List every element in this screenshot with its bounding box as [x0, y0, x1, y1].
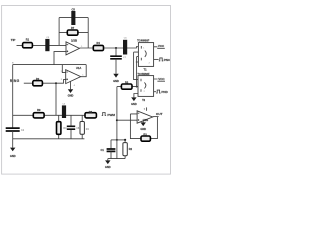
- wire feedback riser: [58, 18, 60, 46]
- svg-text:RING: RING: [10, 79, 20, 83]
- wire feedback right edge: [87, 18, 89, 48]
- node PND: [154, 91, 156, 93]
- resistor R8: [85, 113, 96, 118]
- wire RING input: [24, 80, 66, 84]
- svg-text:U1A: U1A: [76, 66, 81, 70]
- node VCC: [154, 47, 165, 49]
- svg-text:PND: PND: [161, 90, 168, 94]
- wire IC1 pin2 riser: [134, 52, 138, 80]
- wire op-amp3 feedback: [130, 114, 157, 139]
- svg-text:R3: R3: [143, 133, 147, 137]
- resistor R3: [141, 136, 150, 141]
- resistor R11: [81, 115, 83, 139]
- resistor R7: [67, 30, 78, 35]
- op-amp U1B2: [146, 107, 148, 110]
- resistor R5: [117, 86, 138, 88]
- svg-text:1/2B: 1/2B: [71, 38, 77, 42]
- node PNC: [154, 58, 159, 60]
- svg-text:R2: R2: [36, 77, 40, 81]
- svg-text:C1: C1: [101, 148, 105, 152]
- capacitor C7: [115, 48, 117, 56]
- wire op-amp1 output: [79, 47, 138, 48]
- svg-text:GND: GND: [68, 93, 74, 97]
- wire op-amp3 +input: [117, 119, 137, 121]
- node PWM: [102, 113, 106, 116]
- wire op-amp2 gnd stub: [70, 82, 72, 90]
- op-amp U1A: [13, 64, 87, 66]
- wire C1 R2 top node: [111, 139, 125, 141]
- capacitor C3: [45, 39, 49, 51]
- ground: [113, 74, 118, 78]
- svg-text:R7: R7: [71, 26, 75, 30]
- node junction: [55, 82, 57, 84]
- resistor R1: [23, 43, 33, 48]
- svg-text:R1: R1: [26, 37, 30, 41]
- wire lower-left upper rail: [13, 114, 97, 116]
- wire IC1 pin3 riser: [136, 57, 138, 87]
- svg-text:GND: GND: [105, 165, 111, 169]
- wire op-amp3 output: [153, 116, 159, 118]
- ground: [105, 160, 110, 164]
- node VCC: [154, 79, 165, 81]
- resistor R2: [33, 81, 43, 86]
- capacitor C2: [6, 128, 20, 131]
- capacitor C8: [70, 115, 72, 139]
- node junction: [116, 119, 118, 121]
- wire IC2 gnd pin: [134, 94, 138, 98]
- ground: [10, 148, 15, 152]
- wire feedback lower branch: [59, 32, 88, 34]
- resistor R4: [93, 45, 103, 50]
- wire op-amp3 gnd: [142, 121, 144, 123]
- frame border: [2, 6, 171, 175]
- wire feedback top: [59, 17, 88, 19]
- wire TIP input: [17, 44, 67, 46]
- svg-text:R9: R9: [37, 108, 41, 112]
- op-amp U1B: [66, 42, 79, 55]
- resistor R9: [33, 113, 44, 118]
- svg-text:GND: GND: [10, 154, 16, 158]
- ground: [141, 122, 146, 126]
- capacitor C1: [110, 140, 112, 149]
- wire main vertical: [116, 87, 118, 159]
- resistor R2b: [124, 140, 126, 159]
- wire lower-left bottom rail: [13, 138, 85, 140]
- svg-text:PNC: PNC: [164, 58, 171, 62]
- resistor R10: [58, 115, 60, 139]
- svg-text:TIP: TIP: [11, 38, 16, 42]
- capacitor C4: [62, 105, 66, 118]
- ground: [131, 97, 136, 101]
- ground: [68, 89, 73, 93]
- svg-text:C5: C5: [72, 8, 76, 12]
- svg-text:VCC: VCC: [158, 44, 165, 48]
- node junction: [115, 47, 117, 49]
- svg-text:PWM: PWM: [107, 113, 115, 117]
- svg-text:GND: GND: [113, 79, 119, 83]
- svg-text:GND: GND: [131, 102, 137, 106]
- svg-text:R5: R5: [125, 80, 129, 84]
- svg-text:R2: R2: [129, 147, 133, 151]
- svg-text:VCC: VCC: [158, 77, 165, 81]
- svg-text:GND: GND: [140, 127, 146, 131]
- wire ring branch riser: [55, 83, 57, 115]
- svg-text:OUT: OUT: [156, 112, 163, 116]
- capacitor C5: [71, 11, 75, 25]
- svg-text:R8: R8: [89, 110, 93, 114]
- capacitor C6: [123, 40, 127, 55]
- svg-text:R4: R4: [97, 41, 101, 45]
- svg-text:TC4W66F: TC4W66F: [137, 38, 150, 42]
- pin stubs IC1 left: [134, 52, 139, 62]
- wire left rail: [12, 65, 14, 129]
- wire op-amp1 inverting input: [54, 52, 66, 65]
- wire bottom node: [108, 159, 125, 161]
